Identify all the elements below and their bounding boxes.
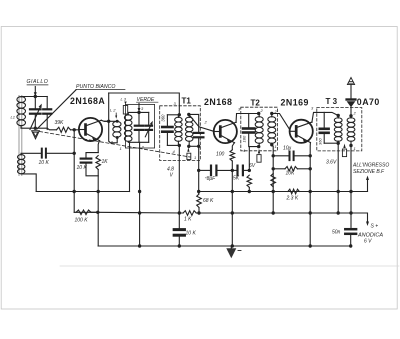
svg-text:1K: 1K xyxy=(102,159,109,165)
label PUNTO BIANCO with leader line xyxy=(37,84,125,129)
svg-text:2: 2 xyxy=(141,145,145,150)
svg-text:ANODICA: ANODICA xyxy=(357,232,383,238)
wire: T2 secondary bottom line xyxy=(272,145,273,213)
svg-text:50n: 50n xyxy=(332,230,341,236)
node: tank top junction xyxy=(34,95,37,98)
node: 5K row right junction xyxy=(248,169,251,172)
svg-text:ALL'INGRESSO: ALL'INGRESSO xyxy=(352,163,389,169)
wire: AVC bus (right segment) to B.F. output arrow xyxy=(199,176,369,192)
capacitor 5K xyxy=(232,166,249,182)
wire: T3 secondary bottom drop xyxy=(350,146,352,228)
inductor L1 secondary winding xyxy=(18,155,25,174)
box: IF transformer T3 (dashed) xyxy=(317,97,362,151)
ferrite core of L1 xyxy=(19,96,22,176)
svg-text:6 V: 6 V xyxy=(364,239,372,245)
wire: T1 primary bottom to supply bus, label 4.8V xyxy=(167,145,179,213)
slug symbol T3, label 3.6V xyxy=(326,144,347,166)
svg-text:68 K: 68 K xyxy=(203,198,214,204)
capacitor (T1 secondary bypass) xyxy=(189,114,204,148)
svg-text:⁺8μF: ⁺8μF xyxy=(204,176,216,182)
resistor (T2 return, unlabeled) xyxy=(271,174,276,187)
node: L2 drop crossings xyxy=(138,190,141,215)
capacitor 360 (across T3 primary) xyxy=(318,112,339,145)
resistor 1K (emitter) xyxy=(96,156,108,170)
svg-text:180: 180 xyxy=(242,135,247,142)
capacitor 180 (across T2 primary) xyxy=(242,114,255,147)
svg-text:3: 3 xyxy=(174,101,177,106)
node: tank bottom junction xyxy=(34,127,37,130)
label ALL'INGRESSO SEZIONE B.F xyxy=(352,163,389,176)
svg-text:6V: 6V xyxy=(249,163,256,169)
inductor L2 coupling winding (collector) xyxy=(110,108,121,145)
node: bias junction xyxy=(73,152,76,155)
slug symbol T1 with pin 1 xyxy=(187,147,196,160)
inductor T1 secondary xyxy=(185,113,193,148)
capacitor 10u (2N169 emitter bypass) xyxy=(273,146,310,161)
svg-text:2: 2 xyxy=(260,108,264,113)
svg-text:T1: T1 xyxy=(182,97,192,106)
svg-text:100 K: 100 K xyxy=(75,218,89,224)
svg-text:GIALLO: GIALLO xyxy=(27,79,49,85)
wire: L1 tank bottom xyxy=(21,126,47,129)
svg-text:360: 360 xyxy=(161,114,166,122)
capacitor 10K (supply decoupling) xyxy=(174,213,196,246)
box: IF transformer T1 (dashed) xyxy=(160,97,201,161)
capacitor (L2 fixed, in box) xyxy=(135,112,143,142)
wire: L2 box inner top xyxy=(128,106,148,115)
wire: T2 primary bottom xyxy=(249,147,258,171)
ground symbol xyxy=(226,246,241,258)
inductor T3 primary xyxy=(334,114,342,145)
wire: T2 secondary to 2N169 base xyxy=(272,114,290,130)
arrow through tuning capacitor (variable indicator) xyxy=(30,104,42,130)
svg-text:10 K: 10 K xyxy=(186,231,197,237)
wire: supply bus (S+) xyxy=(74,212,369,226)
svg-text:1: 1 xyxy=(354,146,356,151)
node: emitter crossing dots xyxy=(96,190,100,214)
wire: L2 box inner bottom xyxy=(128,141,148,144)
node: 68K junctions xyxy=(197,190,201,215)
transistor 2N169 xyxy=(281,97,313,143)
svg-text:1 K: 1 K xyxy=(184,217,192,223)
wire: T1 secondary bottom drop xyxy=(198,146,200,194)
inductor T3 secondary xyxy=(347,111,356,152)
wire: ground rail xyxy=(98,245,351,247)
label VERDE with pointer arrow xyxy=(137,97,159,112)
wire: 2N168 emitter line to ground rail xyxy=(231,161,233,246)
svg-text:10μ: 10μ xyxy=(283,146,292,152)
capacitor 10K (series, base coupling) xyxy=(21,149,74,166)
capacitor 360 (across T1 primary) xyxy=(161,114,180,145)
svg-text:5K: 5K xyxy=(233,176,240,182)
trimmer capacitor (antenna) xyxy=(43,97,51,130)
svg-text:2: 2 xyxy=(353,111,357,116)
node: T3 primary drop crossings xyxy=(337,190,340,215)
inductor T2 secondary xyxy=(268,109,278,149)
node: T2 feed to bus xyxy=(248,190,251,193)
svg-text:10 K: 10 K xyxy=(39,160,50,166)
resistor 100K (bias) xyxy=(75,210,98,224)
svg-text:0A70: 0A70 xyxy=(357,97,380,107)
label L3 with slug symbol (tuning core) xyxy=(121,97,128,115)
inductor T1 primary xyxy=(173,101,183,154)
wire: 2N168A base bias vertical xyxy=(73,130,75,213)
inductor L2 main winding xyxy=(124,115,132,142)
node: T2 return crossings xyxy=(272,154,275,215)
inductor L1 primary winding xyxy=(11,97,26,126)
svg-text:4: 4 xyxy=(173,149,176,154)
resistor 1K (supply bus) xyxy=(183,211,196,223)
resistor 2.3K (AVC bus) xyxy=(286,189,300,201)
label S+ ANODICA 6V xyxy=(357,224,383,245)
diode 0A70 (detector) xyxy=(347,97,380,116)
wire: L1 tank top xyxy=(21,96,47,99)
wire: 2N168 collector to T2 xyxy=(236,107,259,123)
label GIALLO with pointer arrow xyxy=(27,79,49,97)
node: T3 secondary drop crossings xyxy=(349,190,352,215)
wire: 2N169 emitter down xyxy=(309,143,311,247)
svg-text:SEZIONE B.F: SEZIONE B.F xyxy=(353,169,385,175)
open arrow symbol below tank (adjust pointer) xyxy=(32,131,40,139)
capacitor 10K (emitter bypass) xyxy=(77,153,99,176)
svg-text:10 K: 10 K xyxy=(77,165,88,171)
trimmer capacitor (L2, in box) xyxy=(145,112,153,142)
svg-text:1: 1 xyxy=(194,155,196,160)
node: collector junction xyxy=(107,120,110,123)
wire: T3 primary bottom drop xyxy=(337,143,339,213)
svg-text:V: V xyxy=(170,173,174,179)
svg-text:1: 1 xyxy=(120,146,122,151)
slug symbol T2 xyxy=(249,149,261,169)
wire: AVC bus (left segment) xyxy=(36,191,129,193)
wire: T1 secondary to 2N168 base xyxy=(189,114,214,131)
node: 2N169 emitter crossings xyxy=(309,154,312,248)
wire: L2 coil bottom to AVC bus xyxy=(120,142,130,191)
wire: L2 box bottom to supply rail xyxy=(140,142,145,246)
node: decoupling junction xyxy=(178,211,181,214)
variable capacitor C1 (tuning, GIALLO section) xyxy=(30,97,41,129)
svg-text:360: 360 xyxy=(318,138,323,145)
svg-text:L1: L1 xyxy=(11,115,15,120)
svg-text:2: 2 xyxy=(204,120,208,125)
resistor 39K (base series) xyxy=(47,120,79,132)
inductor T2 primary xyxy=(243,108,264,153)
wire: 2N169 collector to T3 xyxy=(311,106,338,123)
svg-text:3: 3 xyxy=(141,106,144,111)
svg-text:2.3 K: 2.3 K xyxy=(286,196,299,202)
node: rail junctions xyxy=(138,244,181,247)
svg-text:10K: 10K xyxy=(286,171,296,177)
capacitor 50n (supply filter) xyxy=(332,229,356,248)
resistor (T2 feed, unlabeled) xyxy=(247,175,252,191)
svg-text:2N168: 2N168 xyxy=(204,97,232,107)
node: 8uF row left junction xyxy=(197,169,200,172)
svg-text:T 3: T 3 xyxy=(326,97,338,106)
capacitor 8uF (electrolytic) xyxy=(199,166,233,182)
wire: 2N168A collector to L2 xyxy=(101,120,117,143)
svg-text:3: 3 xyxy=(311,106,314,111)
resistor 100 (2N168 emitter) xyxy=(216,150,235,161)
box: L2 tuned circuit (solid) xyxy=(125,104,154,148)
wire: rail riser at collector xyxy=(108,93,110,121)
svg-text:1: 1 xyxy=(275,144,277,149)
antenna symbol (test point) xyxy=(347,78,354,99)
svg-text:T2: T2 xyxy=(251,99,261,108)
svg-text:L 3: L 3 xyxy=(121,97,127,102)
svg-text:39K: 39K xyxy=(55,120,65,126)
svg-text:3.6V: 3.6V xyxy=(326,160,337,166)
box: IF transformer T2 (dashed) xyxy=(241,99,278,151)
svg-text:100: 100 xyxy=(216,152,225,158)
node: AVC left crossings xyxy=(73,190,76,193)
transistor 2N168A xyxy=(70,96,105,141)
resistor 10K (2N169 emitter) xyxy=(273,167,310,177)
wire: 2N168 emitter down xyxy=(232,143,234,150)
node: emitter line crossings xyxy=(231,169,234,248)
wire: L1 secondary return xyxy=(21,174,36,192)
node: base junction of 2N168A xyxy=(73,128,76,131)
transistor 2N168 xyxy=(204,97,237,143)
svg-text:S +: S + xyxy=(371,224,379,230)
wire: emitter line to buses xyxy=(97,170,99,247)
svg-text:2N168A: 2N168A xyxy=(70,96,105,106)
dashed leader line to T1 slug xyxy=(40,132,191,158)
wire: 2N168A emitter lead down xyxy=(98,141,99,153)
wire: top rail (stage 1) xyxy=(109,93,180,115)
resistor 68K xyxy=(197,194,214,213)
svg-text:L 2: L 2 xyxy=(110,108,116,113)
svg-text:2N169: 2N169 xyxy=(281,97,309,107)
